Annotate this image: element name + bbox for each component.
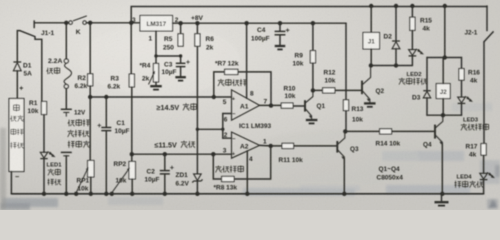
junction bus Q4 emitter <box>440 192 444 196</box>
wire rail to R15 <box>411 6 413 17</box>
wire Q4 collector node bar <box>427 114 462 116</box>
regulator U2 LM317 box <box>140 16 173 32</box>
wire A1 output to R10 to Q1 base <box>260 104 306 107</box>
wire +8V to R9 <box>312 23 314 50</box>
wire sense A to C1 <box>105 97 107 127</box>
junction R7 feedback on sense A <box>212 95 216 99</box>
junction J2 feed on rail <box>443 4 447 8</box>
text 充电指示 <box>399 78 405 85</box>
wire to fuse <box>65 23 67 59</box>
wire J1 to Q2 collector node <box>370 49 372 66</box>
text 保险 <box>47 68 54 74</box>
wire solar+ to D1 <box>16 71 18 99</box>
wire J1-1 to switch K <box>34 22 68 24</box>
wire into A2 pin2 <box>223 137 232 139</box>
wire J2 top node spread <box>427 57 462 59</box>
op-amp comparator A1 (IC1a) <box>232 90 260 120</box>
wire sense line A to A1 pin5 <box>90 96 231 98</box>
capacitor C2 10µF <box>160 170 170 172</box>
text 免维护 <box>68 130 74 137</box>
junction R2/RP1 on sense A <box>88 95 92 99</box>
ground R4 <box>150 85 162 87</box>
relay J1 box <box>363 33 380 50</box>
wire ref node to comparator inputs <box>197 128 222 130</box>
wire LM317 pin1 down <box>155 31 157 56</box>
zener ZD1 6.2V <box>194 174 202 181</box>
wire top +12V rail <box>131 7 487 23</box>
text 硅 <box>14 104 20 111</box>
wire R17 to LED4 <box>483 155 485 173</box>
wire R2 to RP1 <box>89 86 91 161</box>
wire LED4 to bus <box>483 180 485 194</box>
wire R16 to LED3 <box>461 80 463 97</box>
wire +8V to C4 <box>279 23 281 31</box>
wire LED2 to node <box>411 56 413 65</box>
wire +8V rail <box>173 22 347 24</box>
wire R9 to Q1 collector <box>312 63 314 90</box>
wire to R4 <box>155 56 157 64</box>
resistor R13 <box>343 100 348 111</box>
wire Q3 emitter to bus <box>343 159 345 194</box>
junction bus battery <box>64 192 68 196</box>
wire Q4 emitter to bus <box>441 144 443 194</box>
wire node to LED2 <box>371 65 413 67</box>
wire Q1 collector to R12 to Q2 base <box>313 89 362 91</box>
junction R5 on +8V <box>178 21 182 25</box>
wire R8 feedback loop <box>213 146 270 179</box>
wire adj node <box>156 55 181 57</box>
LED3 arrows <box>465 96 469 99</box>
wire D3 to Q4 collector node <box>426 98 428 115</box>
battery 12V plates top <box>61 108 72 110</box>
wire R15 to LED2 <box>411 30 413 49</box>
wire rail to R3 <box>130 23 132 74</box>
wire RP1 to bus <box>90 177 92 194</box>
wire pin4 to bus <box>246 151 248 194</box>
junction R8 feedback on sense B <box>211 152 215 156</box>
R4 wiper arrow <box>149 71 155 84</box>
relay contact J1-1 arm and wire to R1 <box>20 31 42 102</box>
capacitor C3 10µF <box>176 62 186 64</box>
ground main <box>435 201 449 203</box>
transistor Q2 <box>361 81 363 95</box>
wire +8V to R6 <box>196 23 198 34</box>
junction C1 on sense A <box>104 95 108 99</box>
LED2 diode <box>409 50 417 56</box>
resistor R11 10k <box>282 143 294 148</box>
bleed-through smudges from page behind <box>0 25 500 210</box>
junction R6 on +8V <box>195 21 199 25</box>
fuse 2.2A 保险 <box>64 59 68 63</box>
junction bus C2 <box>163 192 167 196</box>
wire rail to J2 node <box>444 6 446 58</box>
resistor R16 <box>459 69 464 81</box>
junction Q2 collector / J1 / D2 node <box>369 63 373 67</box>
junction pin8 on +8V <box>244 21 248 25</box>
capacitor C1 10µF <box>101 127 111 129</box>
resistor R8 13k <box>222 176 235 181</box>
relay contact J2-1 arm <box>484 32 493 42</box>
text 全密封 <box>68 120 75 127</box>
transistor Q4 <box>434 125 436 139</box>
junction R5/C3 <box>179 54 182 57</box>
resistor R10 <box>281 103 293 108</box>
junction R2 top <box>88 21 92 25</box>
LED4 diode <box>480 173 488 179</box>
junction bus A2 pin4 <box>245 192 249 196</box>
LED1 arrows <box>48 152 52 155</box>
wire sense B to C2 <box>164 154 166 170</box>
wire J2-1 to R17 <box>483 42 485 144</box>
wire node to J2 <box>442 58 444 84</box>
LED3 diode <box>458 97 466 103</box>
junction R15 on rail <box>410 4 414 8</box>
junction R9 on +8V <box>311 21 315 25</box>
wire to C3 <box>180 56 182 63</box>
resistor R5 <box>178 34 183 46</box>
diode D3 <box>423 90 430 92</box>
junction J1 on rail <box>369 4 373 8</box>
op-amp comparator A2 (IC1b) <box>232 132 260 158</box>
junction Q4 collector <box>441 113 445 117</box>
junction pin6/pin2 <box>221 128 224 131</box>
text 停充 <box>48 169 54 176</box>
wire solar- to ground bus <box>10 172 12 194</box>
RP1 wiper arrow <box>76 167 88 192</box>
wire sense line B to A2 pin3 <box>132 153 232 155</box>
resistor R12 <box>323 88 335 93</box>
text 指示 <box>48 179 54 186</box>
junction bus Q3 emitter <box>342 192 346 196</box>
diode D2 <box>392 40 400 42</box>
junction A2 output <box>269 144 273 148</box>
wire LED3 to node <box>461 104 463 116</box>
text 过放比较 <box>215 166 221 173</box>
resistor R14 10k <box>380 129 392 134</box>
junction pin1/R4 <box>154 54 157 57</box>
junction A1 output <box>269 103 273 107</box>
potentiometer RP1 body <box>88 161 94 178</box>
wire rail to R2 <box>89 23 91 74</box>
junction bus RP1 <box>89 192 93 196</box>
text 过充比较 <box>218 79 224 86</box>
battery 12V plates bottom <box>61 151 72 153</box>
resistor R17 <box>481 144 486 156</box>
wire D2 to node <box>395 49 397 66</box>
diode D1 (5A) <box>13 61 21 63</box>
transistor Q1 <box>304 100 306 111</box>
wire RP2 to bus <box>131 179 133 194</box>
junction bus RP1 arrow <box>74 192 78 196</box>
junction C2 on sense B <box>163 152 167 156</box>
wire D1 cathode up / J1-1 arm pivot <box>17 31 20 62</box>
wire rail to D2 <box>395 6 397 40</box>
text 电池 <box>11 129 16 135</box>
resistor R6 <box>195 34 200 46</box>
transistor Q3 <box>336 141 338 153</box>
wire J2 to node <box>442 99 444 116</box>
text 太阳 <box>10 116 16 122</box>
wire R4 to ground <box>155 82 157 86</box>
relay J2 box <box>436 84 450 99</box>
wire C2 to bus <box>164 174 166 194</box>
wire to D3 <box>426 58 428 90</box>
wire +8V to R5 <box>180 23 182 34</box>
text 组件 <box>10 142 16 148</box>
junction fuse top <box>64 21 68 25</box>
text 过放 <box>181 141 188 148</box>
potentiometer R4 body <box>153 64 158 83</box>
capacitor C4 100µF <box>275 30 286 32</box>
wire ZD1 to bus <box>196 181 198 194</box>
text 蓄电池 <box>68 141 75 148</box>
switch K <box>69 21 73 25</box>
wire LED1 to bus <box>43 159 45 194</box>
text 正常指示 <box>455 181 462 188</box>
wire ref node to ZD1 <box>196 129 198 174</box>
wire R7 feedback loop <box>214 72 271 106</box>
ground C3 <box>175 76 186 78</box>
junction J2 top node <box>443 55 447 59</box>
ground Q2 emitter <box>364 102 376 104</box>
wire node to R14 to Q4 base <box>345 130 435 132</box>
junction Q1 collector node <box>311 88 315 92</box>
LED1 diode <box>40 152 47 158</box>
wire K to LM317 pin3 <box>86 22 140 24</box>
wire node to R16 <box>461 58 463 69</box>
junction bus RP2 <box>130 192 134 196</box>
junction bus C1 <box>104 192 108 196</box>
wire rail to J1 <box>370 6 372 33</box>
wire rail right corner down <box>486 6 488 31</box>
resistor R9 <box>310 51 315 63</box>
junction bus ZD1 <box>195 192 199 196</box>
wire +8V rail corner down to R13 <box>345 23 347 100</box>
junction ref/ZD1 <box>196 128 199 131</box>
wire C4 to ground <box>279 35 281 45</box>
RP2 wiper arrow <box>112 168 130 193</box>
wire bus to main ground <box>441 194 443 202</box>
text 过放指示 <box>461 124 467 131</box>
LED2 arrows <box>416 49 420 52</box>
ground C4 <box>275 45 286 47</box>
junction bus LED1 <box>42 192 46 196</box>
resistor R2 <box>88 74 93 86</box>
wire R3 down to sense B <box>131 87 133 154</box>
junction node battery rail / riser / R3 <box>129 21 133 25</box>
LED4 arrows <box>487 172 491 175</box>
junction bus RP2 arrow <box>110 192 114 196</box>
wire into A1 pin6 <box>223 113 232 115</box>
junction Q3 collector node <box>343 129 347 133</box>
wire R6 down to zener node <box>196 46 198 129</box>
junction D2 on rail <box>394 4 398 8</box>
wire pin6-pin2 vertical <box>222 114 224 139</box>
junction R3/RP2 on sense B <box>130 152 134 156</box>
J1-1 fixed contact <box>33 21 35 28</box>
wire sense B to RP2 <box>131 154 133 161</box>
wire fuse to battery <box>65 89 67 109</box>
resistor R15 <box>410 17 415 30</box>
resistor R3 <box>129 74 134 87</box>
wire R13 to Q3 node <box>345 111 347 132</box>
potentiometer RP2 body <box>129 162 135 180</box>
solar panel box 硅太阳电池组件 <box>9 99 24 172</box>
junction C4 on +8V <box>278 21 282 25</box>
wire C1 to bus <box>105 131 107 194</box>
resistor R1 <box>41 102 46 115</box>
wire battery- to bus <box>65 156 67 194</box>
text 过充 <box>183 103 190 110</box>
wire R1 to LED1 <box>43 115 45 153</box>
wire A2 output via R11 to Q3 base <box>260 144 338 147</box>
ground Q1 emitter <box>306 119 318 121</box>
wire ground bus <box>11 193 483 195</box>
resistor R7 12k <box>225 69 238 74</box>
junction D2 bottom <box>394 63 398 67</box>
wire pin8 to +8V <box>246 23 248 98</box>
wire C3 to ground <box>180 67 182 77</box>
